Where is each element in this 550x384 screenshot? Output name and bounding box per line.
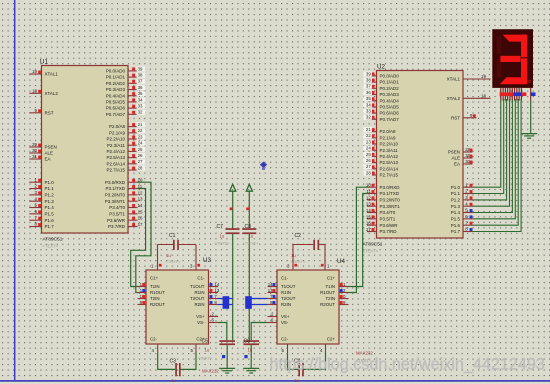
svg-text:P2.2/A10: P2.2/A10 [106, 137, 125, 142]
7-segment digit 3 [497, 35, 531, 85]
svg-text:<TEXT>: <TEXT> [43, 244, 59, 249]
node marker (blue diamond) [260, 162, 267, 170]
svg-text:P2.6/A14: P2.6/A14 [380, 166, 399, 171]
svg-text:XTAL1: XTAL1 [447, 77, 461, 82]
svg-text:P1.7: P1.7 [45, 224, 55, 229]
svg-text:37: 37 [138, 79, 143, 84]
svg-text:25: 25 [138, 147, 143, 152]
svg-text:14: 14 [366, 208, 371, 213]
svg-text:P1.4: P1.4 [45, 205, 55, 210]
svg-text:R1IN: R1IN [281, 290, 291, 295]
svg-text:R1IN: R1IN [194, 290, 204, 295]
svg-text:P3.5/T1: P3.5/T1 [380, 216, 396, 221]
svg-text:P3.1/TXD: P3.1/TXD [105, 186, 125, 191]
svg-text:<TEXT>: <TEXT> [244, 241, 260, 246]
wire U2 P1.6 to display segment g [473, 99, 519, 225]
svg-text:14: 14 [214, 282, 219, 287]
svg-text:U4: U4 [337, 258, 345, 265]
svg-text:P2.2/A10: P2.2/A10 [380, 142, 399, 147]
svg-text:24: 24 [138, 141, 143, 146]
wire display common to ground [530, 101, 532, 134]
svg-text:14: 14 [138, 203, 143, 208]
svg-text:P3.5/T1: P3.5/T1 [109, 211, 125, 216]
svg-text:T1IN: T1IN [150, 284, 160, 289]
svg-text:25: 25 [366, 152, 371, 157]
ic U3 inside labels [150, 276, 205, 342]
svg-text:P3.2/INT0: P3.2/INT0 [380, 197, 401, 202]
capacitor C3 [158, 353, 196, 384]
svg-text:C7: C7 [217, 224, 224, 230]
svg-text:R2OUT: R2OUT [320, 302, 335, 307]
wire U2 P1.2 to display segment c [473, 99, 507, 200]
svg-text:38: 38 [138, 73, 143, 78]
svg-text:VS-: VS- [197, 320, 205, 325]
ground below display [521, 134, 537, 139]
svg-text:P0.4/AD4: P0.4/AD4 [380, 98, 400, 103]
svg-text:36: 36 [138, 85, 143, 90]
svg-text:C2+: C2+ [327, 337, 336, 342]
mcu U1 AT89C51 body [40, 59, 128, 249]
svg-text:35: 35 [366, 96, 371, 101]
7-segment display pins and indicators [500, 88, 536, 101]
svg-text:<TEXT>: <TEXT> [363, 249, 379, 254]
svg-text:38: 38 [366, 78, 371, 83]
capacitor C6 [244, 323, 268, 369]
svg-text:P1.3: P1.3 [45, 199, 55, 204]
capacitor C5 [198, 323, 236, 369]
svg-text:P1.6: P1.6 [451, 223, 461, 228]
svg-text:AT89C51: AT89C51 [363, 242, 383, 248]
svg-text:P2.7/A15: P2.7/A15 [380, 173, 399, 178]
svg-text:R2IN: R2IN [194, 302, 204, 307]
svg-text:MAX232: MAX232 [202, 369, 219, 374]
svg-text:VS+: VS+ [196, 314, 205, 319]
svg-text:P0.1/AD1: P0.1/AD1 [380, 80, 400, 85]
svg-text:23: 23 [138, 134, 143, 139]
svg-text:13: 13 [138, 197, 143, 202]
ground below C6 [243, 368, 259, 373]
svg-text:P3.0/RXD: P3.0/RXD [105, 180, 126, 185]
svg-text:P0.4/AD4: P0.4/AD4 [106, 93, 126, 98]
svg-text:P2.5/A13: P2.5/A13 [380, 160, 399, 165]
svg-text:P0.0/AD0: P0.0/AD0 [106, 69, 126, 74]
svg-text:C2-: C2- [150, 337, 158, 342]
svg-text:33: 33 [366, 109, 371, 114]
svg-text:35: 35 [138, 91, 143, 96]
svg-text:ALE: ALE [45, 151, 54, 156]
svg-text:P0.7/AD7: P0.7/AD7 [380, 117, 400, 122]
svg-text:1u: 1u [171, 378, 176, 383]
svg-text:P0.6/AD6: P0.6/AD6 [106, 106, 126, 111]
svg-text:<TEXT>: <TEXT> [166, 259, 182, 264]
svg-text:12: 12 [138, 190, 143, 195]
svg-text:P0.1/AD1: P0.1/AD1 [106, 75, 126, 80]
ic U4 left pins 14,13,7,8,2,6 [268, 282, 278, 323]
mcu U2 left pins [363, 71, 400, 234]
svg-text:26: 26 [138, 153, 143, 158]
svg-text:T2OUT: T2OUT [190, 296, 205, 301]
ic U3 right pins 14,13,7,8,2,6 [209, 282, 220, 323]
svg-text:33: 33 [138, 104, 143, 109]
svg-text:13: 13 [366, 202, 371, 207]
svg-text:C1+: C1+ [327, 276, 336, 281]
svg-text:AT89C51: AT89C51 [43, 237, 63, 243]
svg-text:C1-: C1- [281, 276, 289, 281]
svg-text:29: 29 [32, 142, 37, 147]
svg-text:T1OUT: T1OUT [190, 284, 205, 289]
svg-text:P1.0: P1.0 [45, 180, 55, 185]
svg-text:T1OUT: T1OUT [281, 284, 296, 289]
svg-text:VS+: VS+ [281, 314, 290, 319]
svg-text:P0.3/AD3: P0.3/AD3 [106, 87, 126, 92]
svg-text:1u: 1u [205, 348, 210, 353]
svg-text:P3.7/RD: P3.7/RD [380, 229, 398, 234]
ic U3 top pins 1,3 [151, 245, 200, 271]
wire U2 P1.7 to display segment dp [473, 99, 522, 232]
svg-text:28: 28 [138, 165, 143, 170]
wire U2 P3.0/RXD to U4 R1OUT [349, 187, 368, 292]
svg-text:30: 30 [32, 148, 37, 153]
svg-text:P2.4/A12: P2.4/A12 [380, 154, 399, 159]
svg-text:22: 22 [138, 128, 143, 133]
mcu U1 right pins [105, 66, 145, 229]
ic U4 right pins 11,12,10,9 [339, 282, 349, 305]
svg-text:C6: C6 [244, 339, 251, 345]
capacitor C1 [158, 233, 197, 264]
svg-text:P1.5: P1.5 [451, 216, 461, 221]
svg-text:16: 16 [138, 216, 143, 221]
svg-text:P3.1/TXD: P3.1/TXD [380, 191, 400, 196]
ground below C5 [219, 368, 235, 373]
svg-text:C2-: C2- [281, 337, 289, 342]
mcu U1 left pins [29, 69, 58, 229]
svg-text:P1.5: P1.5 [45, 211, 55, 216]
svg-text:26: 26 [366, 158, 371, 163]
svg-text:19: 19 [32, 69, 37, 74]
svg-text:P3.4/T0: P3.4/T0 [109, 205, 125, 210]
svg-text:1u: 1u [291, 253, 296, 258]
svg-text:1u: 1u [294, 378, 299, 383]
svg-text:13: 13 [214, 288, 219, 293]
svg-text:15: 15 [366, 214, 371, 219]
svg-text:C1-: C1- [197, 276, 205, 281]
svg-text:22: 22 [366, 133, 371, 138]
svg-text:24: 24 [366, 146, 371, 151]
svg-text:P1.6: P1.6 [45, 218, 55, 223]
svg-text:16: 16 [366, 221, 371, 226]
svg-text:P0.0/AD0: P0.0/AD0 [380, 74, 400, 79]
svg-text:39: 39 [366, 71, 371, 76]
svg-text:1u: 1u [249, 234, 254, 239]
wire U4 T2OUT/R2IN blue segments [245, 296, 267, 309]
svg-text:U2: U2 [377, 64, 385, 71]
wire U2 P1.3 to display segment d [473, 99, 510, 206]
wire U2 P1.4 to display segment e [473, 99, 513, 213]
svg-text:P0.2/AD2: P0.2/AD2 [106, 81, 126, 86]
svg-text:P3.6/WR: P3.6/WR [107, 218, 126, 223]
svg-text:P1.3: P1.3 [451, 204, 461, 209]
svg-text:P3.0/RXD: P3.0/RXD [380, 185, 401, 190]
svg-text:32: 32 [366, 115, 371, 120]
svg-text:C3: C3 [170, 359, 177, 365]
svg-text:28: 28 [366, 170, 371, 175]
svg-text:XTAL2: XTAL2 [447, 96, 461, 101]
svg-text:39: 39 [138, 66, 143, 71]
svg-text:R2IN: R2IN [281, 302, 291, 307]
svg-text:RST: RST [451, 115, 460, 120]
svg-text:11: 11 [366, 189, 371, 194]
svg-text:13: 13 [268, 288, 273, 293]
svg-text:27: 27 [366, 164, 371, 169]
capacitor C2 [291, 233, 326, 264]
svg-text:C1: C1 [169, 233, 176, 239]
ic U3 bottom pins 4,5 [152, 344, 197, 353]
svg-text:T2IN: T2IN [150, 296, 160, 301]
svg-text:P3.6/WR: P3.6/WR [380, 223, 399, 228]
svg-text:P1.4: P1.4 [451, 210, 461, 215]
svg-text:C8: C8 [245, 224, 252, 230]
watermark [270, 356, 545, 374]
svg-text:XTAL2: XTAL2 [45, 91, 59, 96]
mcu U2 AT89C51 body [363, 64, 464, 254]
svg-text:18: 18 [32, 89, 37, 94]
svg-text:<TEXT>: <TEXT> [291, 259, 307, 264]
svg-text:P1.2: P1.2 [45, 192, 55, 197]
svg-text:18: 18 [481, 94, 486, 99]
wire U1 P3.1/TXD to U3 T1IN [131, 189, 146, 287]
capacitor C8 [242, 224, 259, 246]
svg-text:R1OUT: R1OUT [320, 290, 335, 295]
svg-text:P3.3/INT1: P3.3/INT1 [105, 199, 126, 204]
svg-text:U3: U3 [203, 257, 211, 264]
svg-text:T2IN: T2IN [325, 296, 335, 301]
wire U2 P3.1/TXD to U4 T1IN [349, 194, 368, 287]
svg-text:12: 12 [366, 195, 371, 200]
svg-text:P2.3/A11: P2.3/A11 [380, 148, 399, 153]
ic U4 MAX232 body [277, 258, 373, 363]
svg-text:P0.3/AD3: P0.3/AD3 [380, 92, 400, 97]
svg-text:RST: RST [45, 110, 54, 115]
wire U2 P1.1 to display segment b [473, 99, 504, 194]
svg-text:1u: 1u [248, 348, 253, 353]
svg-text:P1.2: P1.2 [451, 197, 461, 202]
svg-text:27: 27 [138, 159, 143, 164]
svg-text:32: 32 [138, 110, 143, 115]
svg-text:PSEN: PSEN [45, 145, 57, 150]
ic U4 bottom pins 5,4 [282, 344, 326, 353]
svg-text:<TEXT>: <TEXT> [215, 241, 231, 246]
svg-text:1u: 1u [220, 234, 225, 239]
svg-text:17: 17 [138, 222, 143, 227]
svg-text:T1IN: T1IN [325, 284, 335, 289]
svg-text:PSEN: PSEN [448, 150, 460, 155]
svg-text:P1.1: P1.1 [45, 186, 55, 191]
svg-text:P2.7/A15: P2.7/A15 [106, 168, 125, 173]
7-segment display body [492, 29, 533, 88]
svg-text:23: 23 [366, 139, 371, 144]
svg-text:P3.7/RD: P3.7/RD [108, 224, 126, 229]
capacitor C7 [215, 224, 240, 246]
mcu U2 right pins [447, 74, 491, 234]
svg-text:P0.7/AD7: P0.7/AD7 [106, 112, 126, 117]
svg-text:P2.6/A14: P2.6/A14 [106, 161, 125, 166]
svg-text:VS-: VS- [281, 320, 289, 325]
svg-text:C1+: C1+ [150, 276, 159, 281]
svg-text:21: 21 [138, 122, 143, 127]
svg-text:EA: EA [454, 162, 460, 167]
svg-text:34: 34 [138, 97, 143, 102]
svg-text:P0.5/AD5: P0.5/AD5 [380, 105, 400, 110]
wire U3 T2OUT/R2IN blue segments [218, 296, 233, 309]
svg-text:EA: EA [45, 157, 51, 162]
svg-text:P2.1/A9: P2.1/A9 [380, 135, 397, 140]
svg-text:1u: 1u [166, 253, 171, 258]
svg-text:P0.2/AD2: P0.2/AD2 [380, 86, 400, 91]
svg-text:U1: U1 [40, 59, 48, 66]
svg-text:https://blog.csdn.net/weixin_4: https://blog.csdn.net/weixin_44212493 [270, 356, 545, 374]
svg-text:XTAL1: XTAL1 [45, 72, 59, 77]
node RXD line (right vertical with arrow, C8 in series) [246, 184, 252, 340]
wire U2 P1.0 to display segment a [473, 99, 501, 187]
svg-text:P2.4/A12: P2.4/A12 [106, 149, 125, 154]
svg-text:34: 34 [366, 102, 371, 107]
svg-text:T2OUT: T2OUT [281, 296, 296, 301]
svg-text:R2OUT: R2OUT [150, 302, 165, 307]
svg-text:C5: C5 [202, 339, 209, 345]
capacitor C4 [288, 353, 326, 384]
wire U2 P1.5 to display segment f [473, 99, 516, 219]
svg-text:P2.3/A11: P2.3/A11 [107, 143, 126, 148]
node TXD line (left vertical with arrow, C7 in series) [230, 184, 236, 340]
svg-text:P3.4/T0: P3.4/T0 [380, 210, 396, 215]
svg-text:37: 37 [366, 84, 371, 89]
svg-text:R1OUT: R1OUT [150, 290, 165, 295]
svg-text:P1.7: P1.7 [451, 229, 461, 234]
svg-text:P1.1: P1.1 [451, 191, 461, 196]
wire U1 P3.0/RXD to U3 R1OUT [136, 182, 151, 292]
svg-text:P0.6/AD6: P0.6/AD6 [380, 111, 400, 116]
svg-text:P2.0/A8: P2.0/A8 [109, 124, 126, 129]
svg-text:C2: C2 [295, 233, 302, 239]
svg-text:15: 15 [138, 209, 143, 214]
svg-text:31: 31 [32, 154, 37, 159]
svg-text:36: 36 [366, 90, 371, 95]
svg-text:P3.2/INT0: P3.2/INT0 [105, 192, 126, 197]
svg-text:21: 21 [366, 127, 371, 132]
svg-text:14: 14 [268, 282, 273, 287]
ic U4 inside labels [281, 276, 335, 342]
ic U4 top pins 3,1 [287, 245, 330, 271]
svg-text:P1.0: P1.0 [451, 185, 461, 190]
svg-text:<TEXT>: <TEXT> [198, 356, 214, 361]
svg-text:P0.5/AD5: P0.5/AD5 [106, 100, 126, 105]
svg-text:P2.0/A8: P2.0/A8 [380, 129, 397, 134]
svg-text:P2.5/A13: P2.5/A13 [106, 155, 125, 160]
svg-text:19: 19 [481, 74, 486, 79]
svg-text:P2.1/A9: P2.1/A9 [109, 130, 126, 135]
ic U3 left pins 11,12,10,9 [138, 282, 147, 305]
svg-text:P3.3/INT1: P3.3/INT1 [380, 204, 401, 209]
svg-text:17: 17 [366, 227, 371, 232]
svg-text:ALE: ALE [451, 156, 460, 161]
ic U3 MAX232 body [146, 257, 219, 374]
